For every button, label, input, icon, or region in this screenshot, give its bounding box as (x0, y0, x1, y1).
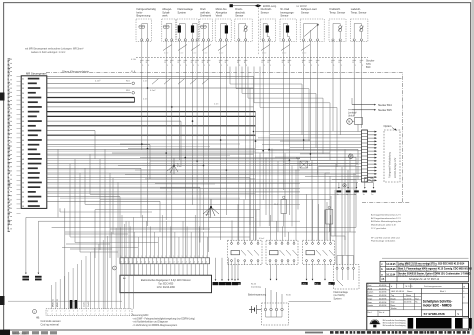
svg-text:Sensor: Sensor (235, 14, 243, 18)
svg-text:Name: Name (406, 295, 411, 297)
svg-text:7: 7 (120, 314, 121, 316)
svg-text:7: 7 (95, 314, 96, 316)
company logo umbrella (370, 319, 406, 328)
svg-text:1: 1 (333, 65, 334, 67)
svg-text:1: 1 (362, 65, 363, 67)
svg-text:02.08.94: 02.08.94 (379, 295, 386, 297)
splice fan B plus (167, 158, 182, 174)
scan artifact blob left edge upper (0, 93, 5, 101)
svg-text:2: 2 (56, 311, 57, 313)
svg-text:8: 8 (339, 62, 340, 64)
potentiometer box R1 Fahrpedal-Sensor (300, 7, 324, 41)
wires sensors to connector row (142, 41, 362, 67)
relay A2 Doppelmembranrelais (266, 240, 298, 264)
svg-text:31: 31 (22, 79, 24, 81)
svg-text:7: 7 (73, 314, 74, 316)
barcode black bar (408, 318, 472, 329)
svg-text:2: 2 (52, 311, 53, 313)
svg-text:1: 1 (209, 65, 210, 67)
terminal strip X3 row (120, 258, 210, 264)
svg-text:1: 1 (355, 65, 356, 67)
svg-text:4: 4 (161, 262, 162, 264)
svg-text:Zeichnungsnummer: Zeichnungsnummer (424, 286, 442, 288)
svg-text:1: 1 (246, 65, 247, 67)
svg-text:4: 4 (149, 262, 150, 264)
svg-text:8: 8 (244, 62, 245, 64)
svg-text:47: 47 (22, 154, 24, 156)
svg-text:40: 40 (22, 121, 24, 123)
svg-text:50: 50 (22, 168, 24, 170)
svg-text:7: 7 (56, 314, 57, 316)
svg-text:8: 8 (353, 62, 354, 64)
svg-text:1: 1 (239, 65, 240, 67)
svg-text:Kl.15: Kl.15 (251, 284, 257, 286)
svg-text:2: 2 (82, 311, 83, 313)
svg-text:1: 1 (318, 65, 319, 67)
svg-text:55: 55 (22, 192, 24, 194)
svg-text:Drehwerk: Drehwerk (200, 14, 212, 18)
valve box Y1 Flammanlage Magnetventile (177, 7, 199, 41)
svg-text:58: 58 (22, 206, 24, 208)
svg-text:38: 38 (22, 112, 24, 114)
svg-text:02.08.94: 02.08.94 (379, 285, 386, 287)
svg-text:AB: AB (381, 278, 385, 281)
svg-text:Motorhubraum ueber 2.5 l: Motorhubraum ueber 2.5 l (371, 224, 397, 227)
svg-text:12 V geschaltet: 12 V geschaltet (371, 227, 386, 230)
svg-text:1: 1 (206, 256, 207, 258)
scan artifact bottom-left corner (0, 330, 10, 335)
connector row ST6 dashed line (136, 57, 368, 59)
wires to starter connectors (351, 98, 353, 105)
svg-text:1: 1 (186, 256, 187, 258)
svg-text:1: 1 (290, 65, 291, 67)
wire to codierung faint (8, 300, 122, 302)
svg-text:Ersatz: Ersatz (368, 304, 373, 307)
svg-text:7: 7 (125, 314, 126, 316)
wires mesh into terminal strip (122, 215, 207, 258)
svg-text:8: 8 (268, 62, 269, 64)
sensor box B8 Druckabschaltung (235, 7, 252, 66)
svg-text:EDRM-Anlage 12V: EDRM-Anlage 12V (394, 157, 397, 178)
wires descending left area (58, 149, 118, 257)
svg-text:0.1m²: 0.1m² (179, 51, 184, 54)
socket X2 dashed box Steckdose (262, 303, 289, 325)
svg-text:1: 1 (264, 65, 265, 67)
svg-text:1: 1 (311, 65, 312, 67)
svg-text:4: 4 (202, 262, 203, 264)
EDRM boundary dash-dot line (46, 72, 403, 202)
svg-text:2: 2 (120, 311, 121, 313)
wires battery feed verticals (237, 60, 247, 240)
revision table row texts (381, 262, 472, 281)
terminal Kl.5 wire end circles (132, 82, 135, 85)
label Stecker B15 with arrow (352, 109, 374, 111)
svg-text:1: 1 (161, 256, 162, 258)
svg-text:45: 45 (22, 145, 24, 147)
svg-text:42: 42 (22, 131, 24, 133)
svg-text:8: 8 (184, 62, 185, 64)
wires descending to codierung strip (52, 217, 134, 308)
svg-text:0.1m²: 0.1m² (203, 51, 208, 54)
svg-text:7: 7 (69, 314, 70, 316)
svg-text:Bearb: Bearb (391, 297, 396, 300)
relay A3 Abregelrelais (303, 240, 335, 264)
svg-text:7: 7 (82, 314, 83, 316)
svg-text:53: 53 (22, 182, 24, 184)
EDRM legend line (230, 4, 233, 7)
svg-text:1: 1 (204, 65, 205, 67)
svg-text:1: 1 (198, 65, 199, 67)
svg-text:7: 7 (60, 314, 61, 316)
wire staircase sensor signals to strip (230, 67, 337, 167)
svg-text:4: 4 (178, 262, 179, 264)
svg-text:34: 34 (22, 93, 24, 95)
svg-text:8: 8 (146, 62, 147, 64)
svg-text:7: 7 (103, 314, 104, 316)
option connector dashed box (384, 130, 400, 182)
relay A1 Doppelmembranrelais (228, 240, 263, 264)
svg-text:2: 2 (103, 311, 104, 313)
svg-text:- mit DWF - Fahrgeschwindigkei: - mit DWF - Fahrgeschwindigkeitsregelung… (132, 317, 195, 320)
svg-text:0.1m²: 0.1m² (164, 51, 169, 54)
sensor box B2 Abregel-Schaltwerk (162, 7, 176, 41)
svg-text:Mit freundlicher Genehmigung: Mit freundlicher Genehmigung (383, 324, 406, 327)
svg-text:4: 4 (194, 262, 195, 264)
svg-text:1: 1 (190, 256, 191, 258)
svg-text:8: 8 (202, 62, 203, 64)
svg-text:A1 Doppelmembranrelais 12 V: A1 Doppelmembranrelais 12 V (371, 214, 401, 217)
svg-text:Kl.30: Kl.30 (286, 295, 292, 297)
svg-text:8: 8 (282, 62, 283, 64)
svg-text:4: 4 (145, 262, 146, 264)
svg-text:8: 8 (178, 62, 179, 64)
svg-text:A2 Doppelmembranrelais 12 V: A2 Doppelmembranrelais 12 V (371, 217, 401, 220)
svg-text:4: 4 (186, 262, 187, 264)
svg-text:4: 4 (165, 262, 166, 264)
vertical cable tags on codierung wires (53, 298, 90, 308)
svg-text:1a: 1a (337, 194, 339, 196)
sensor box B3 Drehzahl Drehwerk (200, 7, 213, 41)
svg-text:Urspr: Urspr (368, 297, 373, 300)
left margin inner tick column (17, 77, 21, 214)
svg-text:Sensor: Sensor (280, 14, 288, 18)
svg-text:MWG 31: MWG 31 (53, 298, 55, 307)
sheet number cells right (462, 287, 468, 304)
sensor box B4 Drehzahl-Sensor (260, 7, 276, 41)
svg-text:49: 49 (22, 164, 24, 166)
svg-text:2: 2 (463, 297, 464, 299)
svg-text:4: 4 (121, 262, 122, 264)
wires center-right verticals (260, 149, 298, 241)
svg-text:1: 1 (169, 256, 170, 258)
svg-text:Datum: Datum (368, 291, 374, 294)
control unit pin rows with wire tags (22, 78, 42, 208)
svg-text:1: 1 (304, 65, 305, 67)
svg-text:8: 8 (207, 62, 208, 64)
wires from socket box up (266, 288, 283, 303)
svg-text:1: 1 (177, 256, 178, 258)
svg-text:10.11.94: 10.11.94 (386, 273, 396, 276)
svg-text:52: 52 (22, 178, 24, 180)
svg-text:Name: Name (368, 295, 373, 297)
svg-text:4: 4 (173, 262, 174, 264)
svg-text:2: 2 (47, 311, 48, 313)
scan artifact blob left edge lower (0, 296, 5, 305)
svg-text:0.1m²: 0.1m² (282, 51, 287, 54)
svg-text:Temp. Sensor: Temp. Sensor (329, 10, 345, 14)
svg-text:41: 41 (22, 126, 24, 128)
resistor component pill left (274, 196, 287, 226)
battery G1 Batteriespannung (248, 293, 267, 314)
svg-text:02.08.94: 02.08.94 (379, 288, 386, 290)
svg-text:2: 2 (77, 311, 78, 313)
svg-text:Cod 1: Cod 1 (84, 301, 86, 307)
svg-text:Begrenzung: Begrenzung (137, 14, 151, 18)
svg-text:2: 2 (95, 311, 96, 313)
svg-text:Steuerung EDC:: Steuerung EDC: (132, 314, 149, 317)
svg-text:Norm: Norm (391, 304, 396, 307)
mesh mid horizontal connectors (65, 132, 362, 250)
svg-text:31: 31 (329, 283, 331, 285)
svg-text:Cod 2: Cod 2 (88, 301, 90, 307)
switch contacts mid wire row (152, 79, 209, 85)
svg-text:8: 8 (191, 62, 192, 64)
wire tag MWG R-10 pair (22, 217, 41, 280)
svg-text:Blatt 1: Blatt 1 (440, 290, 447, 293)
svg-text:Ers. d: Ers. d (379, 311, 384, 314)
svg-text:8: 8 (302, 62, 303, 64)
svg-text:37: 37 (22, 107, 24, 109)
svg-text:2: 2 (107, 311, 108, 313)
circled note 1 marker (33, 310, 37, 314)
svg-text:Cod stufe aussen: Cod stufe aussen (41, 319, 62, 323)
svg-text:mm²: mm² (206, 213, 210, 216)
svg-text:System: System (178, 10, 187, 14)
svg-text:Kl. B: Kl. B (131, 71, 136, 73)
svg-text:Name: Name (407, 291, 413, 293)
svg-text:werk: werk (162, 14, 168, 18)
mesh long horizontal wires (26, 194, 356, 252)
svg-text:46: 46 (22, 149, 24, 151)
svg-text:0.1m²: 0.1m² (302, 51, 307, 54)
svg-text:32: 32 (22, 83, 24, 85)
valve component small box right (326, 206, 333, 232)
svg-text:4: 4 (137, 262, 138, 264)
svg-text:8: 8 (331, 62, 332, 64)
svg-text:Mit freundlicher Genehmigung: Mit freundlicher Genehmigung (383, 322, 406, 325)
svg-text:4: 4 (169, 262, 170, 264)
svg-text:7: 7 (47, 314, 48, 316)
svg-text:2: 2 (112, 311, 113, 313)
terminal strip numbers above (121, 256, 207, 258)
svg-text:Ventil: Ventil (216, 14, 223, 18)
svg-text:1: 1 (137, 256, 138, 258)
scan artifact bottom strip marks (12, 331, 19, 334)
svg-text:Gepr: Gepr (391, 301, 396, 304)
svg-text:MWG 15: MWG 15 (57, 298, 59, 307)
svg-text:1: 1 (167, 65, 168, 67)
svg-text:36: 36 (22, 102, 24, 104)
svg-text:Slave Klemmenleiste: Slave Klemmenleiste (62, 69, 89, 73)
svg-text:02.08.94: 02.08.94 (379, 292, 386, 294)
svg-text:8: 8 (165, 62, 166, 64)
drawing number SY 97088-0728 (424, 312, 460, 316)
mesh half-pitch horizontals (47, 146, 356, 198)
svg-text:1: 1 (153, 256, 154, 258)
svg-text:7: 7 (129, 314, 130, 316)
svg-text:7: 7 (107, 314, 108, 316)
svg-text:4: 4 (153, 262, 154, 264)
svg-text:7: 7 (64, 314, 65, 316)
svg-text:02.08.94: 02.08.94 (404, 302, 411, 304)
svg-text:Zust: Zust (368, 284, 372, 287)
svg-text:4: 4 (206, 262, 207, 264)
svg-text:39: 39 (22, 116, 24, 118)
revision table (380, 261, 469, 281)
svg-text:7: 7 (77, 314, 78, 316)
svg-text:K1.6: K1.6 (274, 204, 278, 206)
wire corner bus right of MR block (134, 98, 136, 103)
svg-text:8: 8 (219, 62, 220, 64)
svg-text:4: 4 (190, 262, 191, 264)
svg-text:2: 2 (60, 311, 61, 313)
sensor box B5 Nadelbewegungs-Sensor (280, 7, 297, 41)
control unit A1 MR-Steuergeraet block (21, 71, 47, 208)
svg-text:8: 8 (237, 62, 238, 64)
svg-text:2: 2 (116, 311, 117, 313)
svg-text:ST6 B10 EDC Leitung geaendert: ST6 B10 EDC Leitung geaendert am Blatt 1… (398, 264, 437, 267)
wire corner verticals (95, 121, 250, 258)
svg-text:02.08.94: 02.08.94 (379, 305, 386, 307)
svg-text:12.10.95: 12.10.95 (386, 264, 396, 266)
svg-text:2: 2 (64, 311, 65, 313)
symbol siren bottom right of notes (436, 313, 448, 318)
svg-text:Mit freundlicher Genehmigung: Mit freundlicher Genehmigung (383, 319, 406, 322)
svg-text:Fahrgestell-Verkabelung: Fahrgestell-Verkabelung (389, 151, 392, 178)
svg-text:4: 4 (182, 262, 183, 264)
title block frame (367, 283, 469, 330)
svg-text:4.1m²: 4.1m² (95, 79, 101, 82)
svg-text:2: 2 (99, 311, 100, 313)
svg-text:Temp. Sensor: Temp. Sensor (351, 10, 367, 14)
svg-text:Option: Option (384, 124, 392, 128)
svg-text:- mit Notfahrfunktion und Dia: - mit Notfahrfunktion und Diagnose (132, 321, 169, 324)
svg-text:ST6 B10 EDC Leitung geaendert: ST6 B10 EDC Leitung geaendert am Blatt 1… (398, 269, 437, 272)
svg-text:7: 7 (116, 314, 117, 316)
svg-text:Sensor: Sensor (261, 10, 269, 14)
svg-text:8: 8 (262, 62, 263, 64)
svg-text:SY 97088-0728: SY 97088-0728 (424, 312, 445, 316)
sensor box B7 Ladelufttemperatur-Sensor (350, 7, 368, 41)
svg-text:02.08.94: 02.08.94 (379, 298, 386, 300)
svg-text:43: 43 (22, 135, 24, 137)
svg-text:- in Verbindung mit MMDS-Diagn: - in Verbindung mit MMDS-Diagnosesystem (132, 324, 177, 327)
svg-text:Aend: Aend (368, 287, 372, 290)
svg-text:35: 35 (22, 97, 24, 99)
svg-text:System: System (334, 297, 342, 300)
splice junction star (203, 199, 219, 218)
relay output stubs and terminal tags (223, 265, 335, 289)
module Flammanlage dashed box (334, 236, 360, 289)
EDRM boundary dash-dot bottom (362, 201, 410, 203)
svg-text:1: 1 (221, 65, 222, 67)
svg-text:weitere in Fett Leitungen: 1 m: weitere in Fett Leitungen: 1 mm² (31, 51, 65, 54)
svg-text:02.08.94: 02.08.94 (404, 298, 411, 300)
relay K1.5 EDC small box (296, 158, 313, 169)
wires terminal strip into EDC unit (122, 264, 207, 275)
svg-text:W* und W2 sind mit LSG und: W* und W2 sind mit LSG und (371, 236, 400, 239)
svg-text:1: 1 (270, 65, 271, 67)
svg-text:4.5m²: 4.5m² (259, 237, 264, 240)
svg-text:MR Steuergeraet: MR Steuergeraet (26, 71, 47, 75)
svg-text:motor EDC - MMDS: motor EDC - MMDS (423, 304, 452, 308)
svg-text:2: 2 (125, 311, 126, 313)
svg-text:1: 1 (172, 65, 173, 67)
svg-text:03.05.95: 03.05.95 (386, 269, 396, 271)
svg-text:44: 44 (22, 140, 24, 142)
wires into relay boxes from mesh (232, 194, 331, 240)
cut-off text smudge below border (305, 331, 470, 334)
svg-text:Batteriespannung: Batteriespannung (248, 293, 267, 296)
svg-text:1: 1 (182, 256, 183, 258)
svg-text:1: 1 (463, 291, 464, 293)
label Stecker B14 with arrow (352, 104, 374, 106)
svg-text:1: 1 (142, 65, 143, 67)
svg-text:2: 2 (69, 311, 70, 313)
svg-text:1: 1 (186, 65, 187, 67)
sensor box B1 Fahrgeschwindigkeits-Begrenzung (136, 7, 156, 41)
svg-text:Stecker B15: Stecker B15 (378, 109, 392, 112)
svg-text:2: 2 (129, 311, 130, 313)
svg-text:Tag: Tag (391, 295, 394, 297)
control unit A6 EDC Regelgeraet (120, 275, 212, 293)
svg-text:4.1m²: 4.1m² (150, 89, 156, 92)
svg-text:2: 2 (90, 311, 91, 313)
svg-text:8: 8 (316, 62, 317, 64)
svg-text:57: 57 (22, 201, 24, 203)
svg-text:1: 1 (165, 256, 166, 258)
svg-text:8: 8 (225, 62, 226, 64)
svg-text:1: 1 (284, 65, 285, 67)
wires MR block outputs (47, 76, 402, 201)
svg-text:4.1m²: 4.1m² (143, 80, 148, 83)
svg-text:1a: 1a (371, 194, 373, 196)
connector strip X1 to option (362, 130, 378, 182)
svg-text:48: 48 (22, 159, 24, 161)
terminal circle with dot (343, 184, 346, 187)
svg-text:8: 8 (309, 62, 310, 64)
svg-text:1: 1 (198, 256, 199, 258)
svg-text:1: 1 (180, 65, 181, 67)
svg-text:02.08.94: 02.08.94 (379, 302, 386, 304)
left margin cross-reference text column (8, 59, 12, 232)
svg-text:1a: 1a (354, 194, 356, 196)
svg-text:1: 1 (193, 65, 194, 67)
svg-text:1: 1 (141, 256, 142, 258)
svg-text:Gepr: Gepr (368, 301, 373, 304)
svg-text:Elektronisches Regelgeraet f.: Elektronisches Regelgeraet f. 6-Zyl. EDC… (141, 279, 192, 282)
svg-text:GEZ 02.08.94: GEZ 02.08.94 (391, 291, 405, 293)
svg-text:7: 7 (112, 314, 113, 316)
svg-text:51: 51 (22, 173, 24, 175)
wires below connector strip with destination tags (337, 183, 376, 197)
svg-text:4: 4 (157, 262, 158, 264)
svg-text:8: 8 (288, 62, 289, 64)
svg-text:4: 4 (198, 262, 199, 264)
svg-text:Flammanlage verbunden: Flammanlage verbunden (371, 240, 396, 243)
sensor box B6 Kraftstofftemperatur-Sensor (329, 7, 346, 41)
svg-text:1a: 1a (346, 194, 348, 196)
